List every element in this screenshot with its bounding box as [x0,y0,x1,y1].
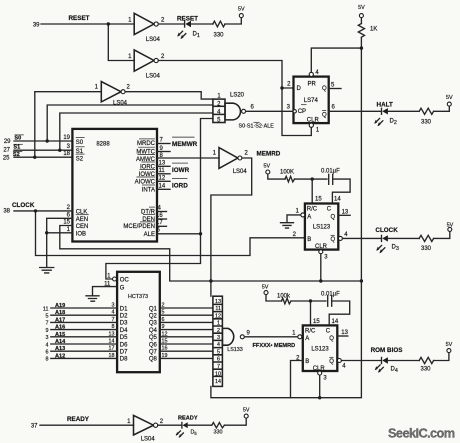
inverter U1a LS04 (top) [128,13,165,43]
svg-text:Q7: Q7 [149,350,158,356]
pin 1 IOB [67,227,86,238]
svg-text:LS04: LS04 [146,37,161,43]
svg-text:38: 38 [3,209,10,215]
svg-text:5: 5 [157,228,161,234]
svg-text:1K: 1K [370,27,377,33]
resistor R3 330 (HALT) [419,108,433,125]
svg-text:Q4: Q4 [149,328,158,334]
svg-text:2: 2 [293,232,297,238]
svg-text:6: 6 [217,357,220,363]
address input A14 [46,339,118,349]
svg-text:CLOCK: CLOCK [375,227,398,234]
wire Q6 to LS133 pin4 [160,339,213,345]
gate U7 LS133 body [222,328,250,352]
svg-text:1: 1 [316,128,320,134]
label S0.S1.S2.ALE [239,122,275,129]
svg-text:6: 6 [46,350,49,356]
wire PR to 1K junction [311,37,361,281]
svg-text:7: 7 [112,317,115,323]
svg-text:3: 3 [46,335,49,341]
wire CEN net (to pullup line) [60,226,362,282]
svg-text:LS04: LS04 [141,437,156,443]
pin 8 AMWC [136,153,164,163]
svg-text:330: 330 [213,33,224,39]
pin 17 MCE/PDEN [123,220,166,230]
svg-text:READY: READY [67,416,90,423]
svg-text:3: 3 [287,104,291,110]
node 37 READY input [31,416,90,430]
svg-text:17: 17 [109,346,115,352]
latch D labels [120,306,128,362]
svg-text:ROM BIOS: ROM BIOS [371,347,403,354]
svg-text:Q: Q [322,112,327,118]
svg-text:SeekIC.com: SeekIC.com [388,426,455,441]
svg-text:CLOCK: CLOCK [12,202,35,209]
svg-text:5V: 5V [238,7,245,13]
svg-text:2: 2 [287,81,291,87]
svg-text:AIOWC: AIOWC [135,179,156,185]
svg-text:13: 13 [109,331,115,337]
svg-text:2: 2 [217,328,220,334]
inverter U1b LS04 (second) [128,50,165,80]
wire C2 to pin14 #2 [329,301,350,325]
resistor R7 330 (ROM BIOS) [419,357,433,372]
node 38 CLOCK input [3,202,35,215]
svg-text:LS123: LS123 [313,225,331,231]
svg-text:B: B [307,237,311,243]
wire CLR#2 to pullup line [319,375,321,398]
svg-text:Q2: Q2 [149,314,158,320]
svg-text:6: 6 [332,105,336,111]
svg-text:2: 2 [161,18,165,24]
svg-text:S2: S2 [76,156,84,162]
junction AEN/IOB [45,231,48,234]
wire R/C pin15 [311,179,313,203]
svg-text:5V: 5V [243,407,250,413]
address input A13 [46,346,118,356]
pin 4 Qbar bubble #2 [337,359,346,370]
svg-text:D1: D1 [120,306,128,312]
svg-text:5V: 5V [262,284,269,290]
wire Q8 to LS133 pin6 [160,353,213,359]
wire inverter to D5 [158,424,182,426]
svg-text:IORD: IORD [172,182,188,189]
ground (G pin) [86,296,99,301]
svg-text:6: 6 [162,317,165,323]
wire U1b output to LS74 D and CLR loop [158,61,311,136]
node 29 S0 [4,135,24,145]
power 5V terminal (CLOCK) [447,222,454,231]
wire AMWC to inverter (MEMRD) [157,157,219,159]
svg-text:3: 3 [323,376,327,382]
svg-text:6: 6 [67,212,71,218]
svg-text:4: 4 [217,342,220,348]
svg-text:13: 13 [215,299,221,305]
LED D3 [376,235,419,253]
svg-text:14: 14 [109,339,115,345]
svg-text:C: C [326,329,331,335]
svg-text:15: 15 [313,319,320,325]
svg-text:5V: 5V [446,95,453,101]
wire MEMRD net (to LS133 pin13) [211,158,252,296]
pin 9 MWTC [136,146,170,156]
wire 100k to R/C junction [291,300,326,302]
svg-text:1: 1 [95,85,99,91]
svg-text:MRDC: MRDC [137,141,156,147]
svg-text:D1: D1 [193,32,200,40]
svg-text:8: 8 [112,324,115,330]
svg-text:1: 1 [67,227,71,233]
pin 11 IOWC [139,168,170,178]
svg-text:11: 11 [159,168,166,174]
svg-text:S0·S1·S2·ALE: S0·S1·S2·ALE [239,124,275,130]
wire Q3 to LS133 pin1 [160,317,213,323]
svg-text:B: B [305,359,309,365]
svg-text:4: 4 [46,342,49,348]
svg-text:19: 19 [162,353,168,359]
label IOWR [172,163,190,174]
pin 1 CLR bubble [309,123,320,133]
address input A19 [43,303,117,313]
svg-text:9: 9 [46,328,49,334]
address input A12 [46,353,118,363]
svg-text:25: 25 [3,155,10,161]
pin 4 PR bubble [309,70,319,77]
svg-text:MEMWR: MEMWR [172,141,198,148]
junction S1 [58,149,61,152]
svg-text:5: 5 [217,349,220,355]
svg-text:37: 37 [31,424,38,430]
wire RESET input net [41,24,134,61]
svg-text:5: 5 [331,83,335,89]
svg-text:10: 10 [215,371,221,377]
svg-text:2: 2 [161,54,165,60]
resistor R6 100k [277,294,291,304]
junction R/C #1 [311,177,314,180]
pin 4 DT/R [141,206,167,216]
capacitor C1 0.01uF [321,168,340,184]
svg-text:15: 15 [63,220,70,226]
svg-text:7: 7 [217,364,220,370]
wire CLOCK net (CLK pin and LS123 B) [14,211,305,256]
pin 5 Q stub [329,83,341,89]
pin 5 ALE [144,228,161,238]
svg-text:D2: D2 [120,314,128,320]
label IORD [172,179,188,190]
inverter U9 LS04 (READY) [127,415,164,442]
wire Q7 to LS133 pin5 [160,346,213,352]
svg-text:12: 12 [215,313,221,319]
capacitor C2 0.01uF [321,291,340,306]
svg-text:14: 14 [215,379,221,385]
svg-text:HALT: HALT [377,102,393,109]
node 27 S1 [3,144,22,153]
svg-text:5V: 5V [358,5,365,11]
pin 19 S0 [63,135,84,146]
node 25 S2 [3,152,22,162]
svg-text:5: 5 [46,314,49,320]
address input A15 [46,331,118,341]
svg-text:11: 11 [43,306,49,312]
svg-text:4: 4 [112,310,115,316]
svg-text:D7: D7 [120,350,128,356]
svg-text:9: 9 [162,324,165,330]
wire 1K to 5V [360,18,362,24]
svg-text:100k: 100k [277,294,291,300]
svg-text:LS04: LS04 [146,74,161,80]
address input A17 [46,317,118,327]
wire G to ground [93,287,118,295]
pin 3 CLR bubble [319,250,329,261]
svg-text:5: 5 [162,310,165,316]
svg-text:CEN: CEN [76,224,89,230]
svg-text:9: 9 [247,331,251,337]
svg-text:100K: 100K [280,169,294,175]
svg-text:0.01µF: 0.01µF [321,168,340,174]
wire inverter U1a output to D1 [158,23,184,25]
IC U6 HCT373 [117,272,160,372]
node 39 (RESET input) [33,15,90,29]
ground (A pin U5) [281,223,294,228]
pin 3 CLR bubble #2 [318,371,328,381]
svg-text:5V: 5V [264,163,271,169]
one-shot U8 LS123 [303,325,338,372]
svg-text:RESET: RESET [69,15,90,22]
address input A16 [46,324,118,334]
svg-text:ALE: ALE [144,232,155,238]
svg-text:15: 15 [315,197,322,203]
power 5V terminal (100k #2) [262,284,269,294]
svg-text:14: 14 [159,183,166,189]
svg-text:16: 16 [162,346,168,352]
svg-text:18: 18 [109,353,115,359]
wire R3 to 5V [434,106,450,111]
svg-text:11: 11 [215,306,221,312]
svg-text:330: 330 [420,367,431,373]
wire R1 to 5V [225,18,241,24]
wire 100K to R/C junction [295,178,328,180]
svg-text:12: 12 [159,175,166,181]
wire pullup bottom run (1K net) [211,281,362,398]
svg-text:IOB: IOB [76,231,86,237]
svg-text:INTA: INTA [142,187,155,193]
svg-text:5V: 5V [446,342,453,348]
svg-text:13: 13 [341,330,348,336]
power 5V terminal (1K) [358,5,365,18]
svg-text:MCE/PDEN: MCE/PDEN [123,224,155,230]
svg-text:D5: D5 [191,430,198,436]
svg-text:Q: Q [322,86,327,92]
svg-text:Q3: Q3 [149,321,158,327]
pin 14 INTA [142,183,170,193]
pin 13 Q stub #2 [337,330,348,336]
svg-text:HCT373: HCT373 [128,294,148,300]
junction S0 [46,139,49,142]
svg-text:READY: READY [178,415,198,421]
LED D1 [177,21,213,39]
svg-text:C: C [327,207,332,213]
svg-text:3: 3 [217,335,220,341]
svg-text:5V: 5V [447,222,454,228]
svg-text:14: 14 [332,319,339,325]
svg-text:1: 1 [128,18,132,24]
wire ALE net (to LS20 pin5 and OC of latch) [106,119,213,280]
svg-text:4: 4 [158,206,162,212]
svg-text:Q: Q [329,359,334,365]
wire 5V to 100k [266,295,282,301]
power 5V terminal (HALT) [446,95,453,106]
pin 16 DEN [142,213,166,223]
LED D5 [176,422,212,437]
svg-text:16: 16 [156,213,163,219]
pin 18 S2 [63,151,84,162]
pin 1 A bubble [296,208,305,217]
pin 1 OC bubble [107,273,129,283]
svg-text:Q5: Q5 [149,335,158,341]
ground (AEN) [40,268,54,273]
svg-text:Q: Q [329,336,334,342]
wire R7 to 5V [434,353,449,361]
svg-text:AEN: AEN [76,217,88,223]
pin 3 S1 [67,144,85,155]
svg-text:RESET: RESET [177,16,198,23]
gate U7 LS133 input bar [213,296,223,386]
svg-text:1: 1 [292,330,296,336]
svg-text:13: 13 [342,209,349,215]
svg-text:1: 1 [128,54,132,60]
flip-flop U3 LS74 [294,77,329,124]
svg-text:2: 2 [162,303,165,309]
wire LS133 output to LS123#2 A [244,336,297,338]
resistor R5 330 (CLOCK) [419,235,433,252]
pin 13 IORC [140,160,170,170]
svg-text:27: 27 [3,148,10,154]
wire CLR#1 to pullup line [320,254,322,281]
wire Q4 to LS133 pin2 [160,324,213,330]
pin 2 B #2 [296,356,300,362]
svg-text:13: 13 [159,160,166,166]
junction pullup/vertical [360,279,363,282]
inverter U1c LS04 (S2) [95,82,131,107]
svg-text:G: G [120,285,125,291]
svg-text:1: 1 [213,151,217,157]
gate U2 LS20 [213,93,255,124]
pin 11 G [104,282,125,292]
inverter U1d LS04 (MEMRD) [213,148,249,175]
svg-text:17: 17 [156,220,163,226]
wire ROM BIOS LED net [342,360,382,362]
svg-text:15: 15 [162,339,168,345]
junction R/C #2 [309,299,312,302]
wire AEN/IOB ground net [47,218,73,266]
wire READY input [40,424,134,426]
svg-text:8288: 8288 [96,142,110,148]
svg-text:29: 29 [4,139,11,145]
wire A to ground [287,215,301,222]
wire 5V to 100K [268,174,285,179]
junction PR/1K [360,46,363,49]
pin 7 MRDC [137,138,170,148]
svg-text:D4: D4 [391,367,398,375]
wire Q5 to LS133 pin3 [160,331,213,337]
svg-text:D3: D3 [120,321,128,327]
junction RESET net [107,22,110,25]
one-shot U5 LS123 [305,204,338,251]
resistor R4 100K [280,169,295,182]
LED D4 [375,357,420,374]
svg-text:LS20: LS20 [230,93,245,99]
label MEMWR [172,137,198,148]
svg-text:14: 14 [334,197,341,203]
svg-text:3: 3 [324,255,328,261]
svg-text:8: 8 [46,357,49,363]
pin 12 AIOWC [135,175,170,185]
junction ALE [199,232,202,235]
latch Q labels [149,306,158,362]
junction S2 [33,156,36,159]
svg-text:LS74: LS74 [304,98,319,104]
junction CLR#1 [319,279,322,282]
wire LS20 output to LS74 CP [246,110,294,112]
wire CLOCK LED net [343,237,382,239]
IC U4 8288 [72,129,157,242]
svg-text:D5: D5 [120,335,128,341]
svg-text:4: 4 [342,363,346,369]
pin 15 CEN [63,220,88,231]
svg-text:D4: D4 [120,328,128,334]
svg-text:4: 4 [344,232,348,238]
svg-text:IOWR: IOWR [172,167,190,174]
svg-text:OC: OC [120,278,130,284]
svg-text:R/C: R/C [307,207,318,213]
wire U1c output to LS20 pin1 [125,92,213,99]
svg-text:Q1: Q1 [149,306,158,312]
wire R8 to 5V [224,418,246,425]
svg-text:2: 2 [160,419,164,425]
svg-text:7: 7 [46,321,49,327]
wire R/C pin15 #2 [310,301,312,325]
svg-text:Q: Q [331,214,336,220]
svg-text:D6: D6 [120,342,128,348]
svg-text:Q: Q [331,237,336,243]
svg-text:FFXXX• MEMRD: FFXXX• MEMRD [253,343,296,349]
LED D2 [374,108,419,126]
svg-text:S0: S0 [76,140,84,146]
pin 2 CLK [67,205,88,216]
svg-text:6: 6 [251,105,255,111]
svg-text:LS04: LS04 [113,101,128,107]
svg-text:0.01µF: 0.01µF [321,291,340,297]
svg-text:330: 330 [214,430,223,436]
resistor R8 330 (READY) [212,423,225,436]
svg-text:Q8: Q8 [149,357,158,363]
svg-text:2: 2 [127,85,131,91]
svg-text:LS133: LS133 [227,347,243,353]
wire R5 to 5V [434,232,450,239]
power 5V terminal (READY) [243,407,250,418]
svg-text:D: D [297,86,302,92]
svg-text:330: 330 [421,120,432,126]
svg-text:R/C: R/C [305,329,316,335]
svg-text:18: 18 [63,151,70,157]
svg-text:1: 1 [127,419,131,425]
svg-text:Q6: Q6 [149,342,158,348]
svg-text:A: A [307,214,311,220]
svg-text:4: 4 [315,70,319,76]
wire B#2 to pullup line [291,361,303,398]
svg-text:LS04: LS04 [233,169,248,175]
power 5V terminal (ROM BIOS) [446,342,453,353]
